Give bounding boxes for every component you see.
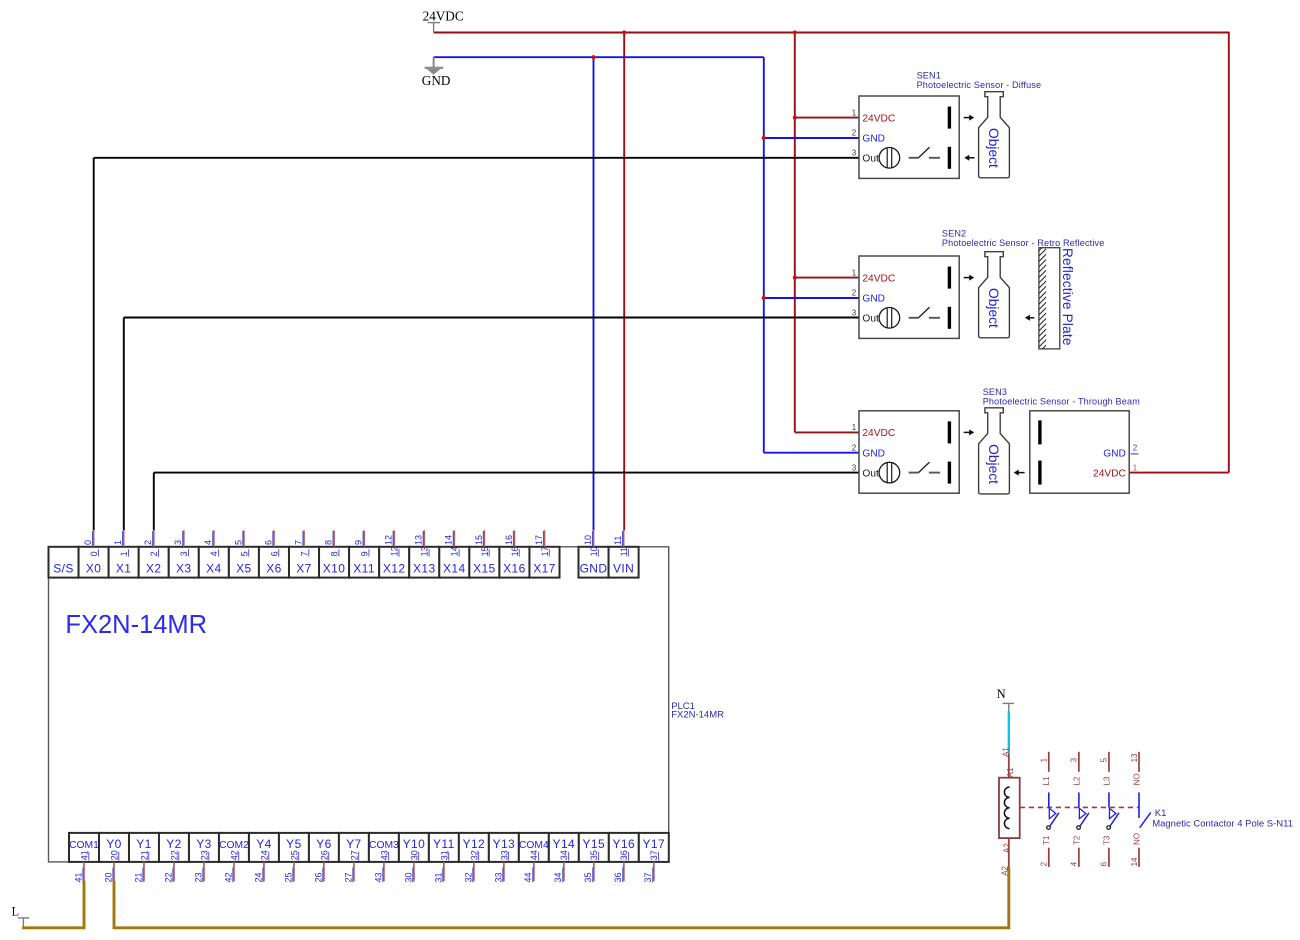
svg-text:X7: X7 (296, 562, 311, 576)
svg-text:Object: Object (986, 444, 1001, 484)
svg-text:COM4: COM4 (519, 840, 549, 851)
svg-text:1: 1 (852, 268, 857, 277)
svg-text:4: 4 (203, 540, 213, 545)
svg-text:Y3: Y3 (196, 837, 211, 851)
svg-text:FX2N-14MR: FX2N-14MR (65, 611, 207, 639)
svg-text:33: 33 (499, 850, 509, 860)
svg-text:X10: X10 (323, 562, 346, 576)
svg-text:Out: Out (862, 154, 879, 165)
svg-text:L2: L2 (1072, 776, 1081, 785)
svg-text:Y0: Y0 (106, 837, 121, 851)
svg-text:Reflective Plate: Reflective Plate (1060, 248, 1075, 346)
svg-text:Y1: Y1 (136, 837, 151, 851)
svg-text:16: 16 (504, 535, 514, 545)
svg-text:2: 2 (1133, 444, 1138, 453)
svg-text:13: 13 (414, 535, 424, 545)
svg-text:Y11: Y11 (433, 837, 455, 851)
svg-text:2: 2 (149, 551, 159, 556)
svg-text:44: 44 (523, 872, 533, 882)
svg-text:5: 5 (233, 540, 243, 545)
svg-text:24: 24 (259, 850, 269, 860)
svg-text:13: 13 (1130, 753, 1139, 762)
svg-text:X15: X15 (473, 562, 496, 576)
svg-text:Y13: Y13 (493, 837, 516, 851)
svg-text:A1: A1 (1002, 747, 1011, 757)
svg-text:L1: L1 (1042, 776, 1051, 785)
svg-text:24VDC: 24VDC (862, 113, 895, 124)
svg-text:36: 36 (619, 850, 629, 860)
svg-text:22: 22 (169, 850, 179, 860)
svg-text:Y2: Y2 (166, 837, 181, 851)
svg-text:X14: X14 (443, 562, 466, 576)
svg-text:X13: X13 (413, 562, 436, 576)
svg-text:0: 0 (83, 540, 93, 545)
svg-text:4: 4 (1070, 861, 1079, 866)
svg-text:9: 9 (354, 540, 364, 545)
svg-text:20: 20 (109, 850, 119, 860)
svg-text:12: 12 (390, 546, 400, 556)
svg-text:1: 1 (119, 551, 129, 556)
svg-text:14: 14 (450, 546, 460, 556)
svg-text:Photoelectric Sensor - Diffuse: Photoelectric Sensor - Diffuse (917, 80, 1042, 90)
svg-text:42: 42 (223, 872, 233, 882)
svg-text:17: 17 (540, 546, 550, 556)
svg-text:Photoelectric Sensor - Through: Photoelectric Sensor - Through Beam (983, 397, 1140, 407)
svg-text:12: 12 (384, 535, 394, 545)
svg-text:X2: X2 (146, 562, 161, 576)
svg-text:GND: GND (862, 134, 885, 145)
svg-text:26: 26 (319, 850, 329, 860)
svg-text:2: 2 (852, 444, 857, 453)
svg-text:34: 34 (559, 850, 569, 860)
svg-text:Y10: Y10 (403, 837, 426, 851)
svg-text:1: 1 (113, 540, 123, 545)
svg-text:41: 41 (79, 850, 89, 860)
svg-text:3: 3 (1070, 757, 1079, 762)
svg-text:21: 21 (133, 872, 143, 882)
svg-text:GND: GND (1103, 449, 1126, 460)
svg-text:Y4: Y4 (256, 837, 271, 851)
svg-text:1: 1 (1133, 463, 1138, 472)
svg-text:30: 30 (409, 850, 419, 860)
svg-text:3: 3 (179, 551, 189, 556)
svg-text:9: 9 (360, 551, 370, 556)
svg-text:3: 3 (173, 540, 183, 545)
svg-text:2: 2 (852, 289, 857, 298)
svg-text:Out: Out (862, 468, 879, 479)
svg-text:T3: T3 (1102, 835, 1111, 845)
svg-text:10: 10 (589, 546, 599, 556)
svg-text:32: 32 (469, 850, 479, 860)
svg-text:37: 37 (649, 850, 659, 860)
svg-text:X12: X12 (383, 562, 406, 576)
svg-text:Y16: Y16 (613, 837, 636, 851)
svg-text:13: 13 (420, 546, 430, 556)
svg-text:34: 34 (553, 872, 563, 882)
svg-text:15: 15 (480, 546, 490, 556)
svg-text:COM1: COM1 (69, 840, 99, 851)
svg-text:36: 36 (613, 872, 623, 882)
svg-text:20: 20 (103, 872, 113, 882)
svg-text:26: 26 (313, 872, 323, 882)
svg-text:10: 10 (583, 535, 593, 545)
svg-text:4: 4 (209, 551, 219, 556)
svg-text:6: 6 (269, 551, 279, 556)
svg-text:A1: A1 (1006, 767, 1015, 777)
svg-text:GND: GND (862, 449, 885, 460)
svg-text:A2: A2 (1003, 843, 1012, 853)
svg-text:5: 5 (239, 551, 249, 556)
svg-text:Y17: Y17 (643, 837, 666, 851)
svg-text:23: 23 (199, 850, 209, 860)
svg-text:44: 44 (529, 850, 539, 860)
svg-text:11: 11 (619, 547, 629, 556)
svg-text:X6: X6 (266, 562, 281, 576)
svg-text:7: 7 (293, 540, 303, 545)
svg-text:32: 32 (463, 872, 473, 882)
svg-text:COM2: COM2 (219, 840, 249, 851)
svg-text:24VDC: 24VDC (862, 273, 895, 284)
svg-text:Y14: Y14 (553, 837, 576, 851)
svg-text:24VDC: 24VDC (1093, 468, 1126, 479)
svg-text:Y6: Y6 (316, 837, 331, 851)
svg-text:T1: T1 (1042, 835, 1051, 845)
svg-text:42: 42 (229, 850, 239, 860)
svg-text:Y12: Y12 (463, 837, 486, 851)
svg-text:X4: X4 (206, 562, 221, 576)
svg-text:24VDC: 24VDC (862, 428, 895, 439)
svg-text:41: 41 (73, 872, 83, 882)
svg-text:NO: NO (1132, 773, 1141, 785)
svg-text:SEN2: SEN2 (942, 229, 966, 239)
svg-text:27: 27 (349, 850, 359, 860)
svg-text:21: 21 (139, 850, 149, 860)
svg-text:X5: X5 (236, 562, 251, 576)
svg-text:Y7: Y7 (346, 837, 361, 851)
svg-text:14: 14 (444, 535, 454, 545)
svg-text:25: 25 (289, 850, 299, 860)
svg-text:0: 0 (89, 551, 99, 556)
svg-text:8: 8 (323, 540, 333, 545)
svg-text:24VDC: 24VDC (423, 8, 464, 23)
svg-text:35: 35 (589, 850, 599, 860)
svg-text:22: 22 (163, 872, 173, 882)
svg-text:1: 1 (852, 108, 857, 117)
svg-text:23: 23 (193, 872, 203, 882)
svg-text:30: 30 (403, 872, 413, 882)
svg-text:GND: GND (580, 562, 608, 576)
svg-text:31: 31 (433, 872, 443, 882)
svg-text:3: 3 (852, 309, 857, 318)
svg-text:2: 2 (143, 540, 153, 545)
svg-text:6: 6 (263, 540, 273, 545)
svg-text:N: N (997, 687, 1006, 701)
svg-text:5: 5 (1100, 757, 1109, 762)
svg-text:X0: X0 (86, 562, 101, 576)
svg-text:Y5: Y5 (286, 837, 301, 851)
svg-text:GND: GND (862, 294, 885, 305)
svg-text:33: 33 (493, 872, 503, 882)
svg-text:NO: NO (1132, 833, 1141, 845)
svg-text:Photoelectric Sensor - Retro R: Photoelectric Sensor - Retro Reflective (942, 238, 1105, 248)
svg-text:COM3: COM3 (369, 840, 399, 851)
svg-text:X16: X16 (503, 562, 526, 576)
svg-text:43: 43 (379, 850, 389, 860)
svg-text:24: 24 (253, 872, 263, 882)
svg-text:X17: X17 (533, 562, 556, 576)
svg-text:35: 35 (583, 872, 593, 882)
svg-text:6: 6 (1100, 861, 1109, 866)
svg-text:Magnetic Contactor 4 Pole S-N1: Magnetic Contactor 4 Pole S-N11 (1152, 818, 1293, 829)
svg-text:GND: GND (422, 73, 451, 88)
svg-text:8: 8 (329, 551, 339, 556)
svg-text:16: 16 (510, 546, 520, 556)
svg-text:1: 1 (852, 423, 857, 432)
svg-text:X3: X3 (176, 562, 191, 576)
svg-text:14: 14 (1130, 857, 1139, 866)
svg-text:Y15: Y15 (583, 837, 606, 851)
svg-text:Out: Out (862, 314, 879, 325)
svg-text:2: 2 (852, 129, 857, 138)
svg-text:Object: Object (986, 128, 1001, 168)
svg-text:27: 27 (343, 872, 353, 882)
svg-text:Object: Object (986, 288, 1001, 328)
svg-text:2: 2 (1040, 861, 1049, 866)
svg-text:X1: X1 (116, 562, 131, 576)
svg-text:VIN: VIN (613, 562, 634, 576)
svg-text:17: 17 (534, 535, 544, 545)
svg-text:37: 37 (643, 872, 653, 882)
svg-text:L3: L3 (1102, 776, 1111, 785)
svg-text:3: 3 (852, 149, 857, 158)
svg-text:11: 11 (613, 536, 623, 545)
svg-text:3: 3 (852, 463, 857, 472)
svg-text:15: 15 (474, 535, 484, 545)
svg-text:L: L (12, 905, 20, 919)
svg-text:25: 25 (283, 872, 293, 882)
svg-text:A2: A2 (1000, 865, 1009, 875)
svg-text:31: 31 (439, 850, 449, 860)
svg-text:S/S: S/S (53, 562, 74, 576)
svg-text:1: 1 (1040, 757, 1049, 762)
svg-text:43: 43 (373, 872, 383, 882)
svg-text:7: 7 (299, 551, 309, 556)
svg-text:FX2N-14MR: FX2N-14MR (671, 710, 724, 721)
svg-text:SEN3: SEN3 (983, 387, 1007, 397)
svg-text:X11: X11 (353, 562, 375, 576)
svg-text:T2: T2 (1072, 835, 1081, 845)
